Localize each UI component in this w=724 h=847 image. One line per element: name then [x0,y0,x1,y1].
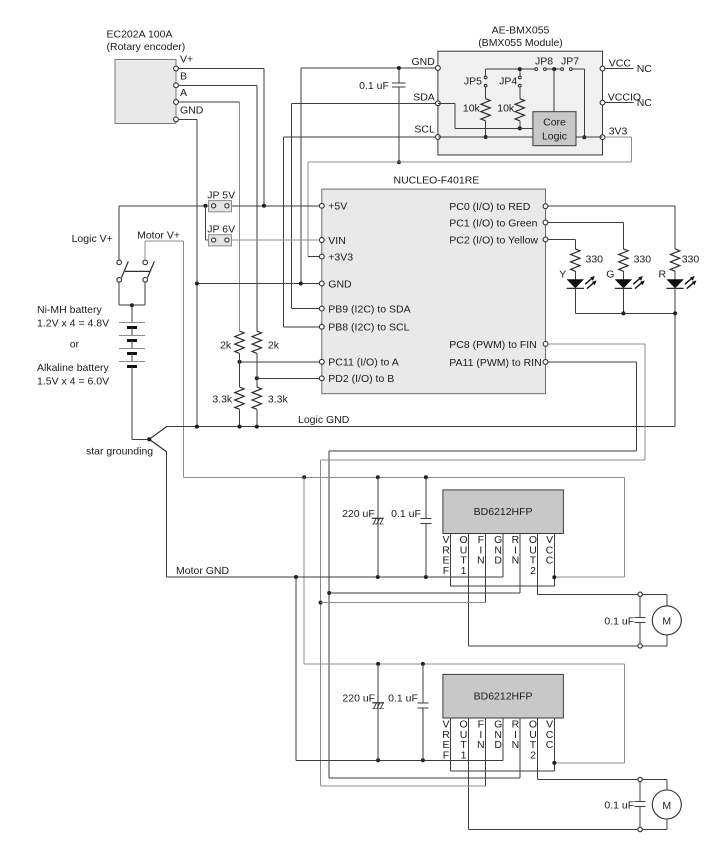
wire NUCLEO GND line [197,283,320,285]
wire +5V line [232,205,320,207]
svg-text:PD2 (I/O) to B: PD2 (I/O) to B [328,373,394,385]
driver U2 pin GND wire [502,718,504,760]
wire encoder A down [178,101,239,103]
svg-text:PC8 (PWM) to FIN: PC8 (PWM) to FIN [449,339,537,351]
svg-text:Motor GND: Motor GND [176,565,230,577]
wire PB9 stub [292,308,320,310]
svg-text:JP 5V: JP 5V [207,189,235,201]
svg-text:3.3k: 3.3k [212,394,233,406]
wire motor V+ rail driver1 [184,476,625,478]
switch gang bar [125,270,150,272]
svg-text:(BMX055 Module): (BMX055 Module) [478,37,563,49]
svg-text:PB9 (I2C) to SDA: PB9 (I2C) to SDA [328,304,410,316]
driver U2 pin OUT1 wire [467,718,469,830]
wire A divider mid [239,353,241,387]
driver U1 pin VREF wire [450,534,452,586]
wire PC1 to green LED [548,222,624,224]
svg-text:2k: 2k [220,340,232,352]
module AE-BMX055 body [438,51,603,155]
svg-text:330: 330 [586,254,604,266]
svg-text:NUCLEO-F401RE: NUCLEO-F401RE [394,174,480,186]
wire logic V+ drop [118,206,120,260]
svg-text:R: R [659,268,667,280]
svg-text:VCC: VCC [609,57,632,69]
wire motor GND bus driver1 [167,576,503,578]
wire PD2 to divider B [257,377,320,379]
NUCLEO pin PC0 [543,204,548,209]
rotary encoder EC202A body [115,60,176,124]
svg-text:JP4: JP4 [499,76,517,88]
capacitor 0.1uF module decoupling [398,68,400,83]
module pin 3V3 [600,135,605,140]
resistor 330 for LED G [619,249,628,271]
wire LED bus to logic GND [674,313,676,426]
wire module SCL to PB8 [283,136,435,138]
svg-text:1: 1 [461,749,467,761]
svg-text:G: G [606,268,614,280]
NUCLEO pin PC2 [543,237,548,242]
svg-text:Core: Core [543,117,566,129]
wire B divider mid [256,353,258,387]
wire module 3V3 wraparound to +3V3 [605,136,632,138]
LED R [674,271,676,279]
svg-text:0.1 uF: 0.1 uF [391,508,421,520]
svg-text:2: 2 [530,749,536,761]
wire PA11 to RIN net [548,361,637,363]
NUCLEO pin PB8 [319,324,324,329]
svg-text:C: C [546,555,554,567]
svg-text:AE-BMX055: AE-BMX055 [492,25,550,37]
driver U1 pin OUT1 wire [467,534,469,646]
module internal 3V3 to core [576,136,603,138]
module pin VCCIO with NC stub [600,100,605,105]
star grounding node [132,438,149,440]
svg-text:PC1 (I/O) to Green: PC1 (I/O) to Green [449,217,537,229]
svg-text:N: N [477,555,485,567]
wire PC8 to FIN net [548,343,645,345]
motor driver IC BD6212HFP U2 [443,674,564,718]
svg-text:star grounding: star grounding [86,446,153,458]
NUCLEO pin GND [319,281,324,286]
svg-text:PC2 (I/O) to Yellow: PC2 (I/O) to Yellow [449,234,538,246]
svg-text:M: M [662,800,671,812]
module internal 3V3 rail [486,68,535,70]
svg-text:Alkaline battery: Alkaline battery [37,362,110,374]
capacitor 220uF U1 [377,477,379,577]
capacitor 0.1uF motor U1 [638,592,642,596]
core logic block [553,69,555,112]
svg-text:BD6212HFP: BD6212HFP [474,691,533,703]
NUCLEO pin +5V [319,203,324,208]
svg-text:330: 330 [634,254,652,266]
svg-text:VIN: VIN [328,235,346,247]
svg-text:A: A [180,87,187,99]
svg-text:JP7: JP7 [561,56,579,68]
svg-text:+3V3: +3V3 [328,252,353,264]
svg-text:JP 6V: JP 6V [207,223,235,235]
wire motor GND branch to driver2 [295,577,297,760]
NUCLEO pin PB9 [319,306,324,311]
svg-text:1.2V x 4 = 4.8V: 1.2V x 4 = 4.8V [37,317,109,329]
wire module SDA to PB9 [292,102,436,104]
NUCLEO pin PC1 [543,220,548,225]
wire PC0 to red LED [548,205,675,207]
wire module GND to NUCLEO GND [399,67,436,69]
wire motor V+ riser [144,241,146,260]
svg-text:Ni-MH battery: Ni-MH battery [37,304,103,316]
svg-text:10k: 10k [463,103,481,115]
NUCLEO pin +3V3 [319,254,324,259]
svg-text:Logic GND: Logic GND [298,414,350,426]
NUCLEO pin PD2 [319,376,324,381]
svg-text:F: F [443,565,449,577]
svg-text:BD6212HFP: BD6212HFP [474,506,533,518]
svg-text:Y: Y [559,268,566,280]
wire encoder B down [178,84,256,86]
battery B1 4-cell [131,305,133,322]
svg-text:+5V: +5V [328,201,347,213]
svg-text:EC202A 100A: EC202A 100A [107,29,173,41]
svg-text:Logic: Logic [542,131,567,143]
svg-text:0.1 uF: 0.1 uF [359,80,389,92]
wire PB8 stub [283,326,319,328]
driver U2 pin OUT2 wire [537,718,539,780]
wire PC11 to divider A [240,361,320,363]
driver U1 pin OUT2 wire [537,534,539,595]
svg-text:1: 1 [461,565,467,577]
wire PC2 to yellow LED [548,239,575,241]
wire encoder V+ to +5V rail [178,68,264,70]
driver U1 pin VCC wire [553,534,555,586]
encoder pin GND [174,117,179,122]
svg-text:0.1 uF: 0.1 uF [388,692,418,704]
wire LED common cathode bus [575,312,675,314]
svg-text:0.1 uF: 0.1 uF [604,615,634,627]
module pin VCC with NC stub [600,66,605,71]
NUCLEO-F401RE body [322,189,546,394]
wire switch commons to battery [118,282,120,305]
svg-text:220 uF: 220 uF [342,508,375,520]
svg-text:M: M [662,616,671,628]
svg-text:Motor V+: Motor V+ [137,229,180,241]
svg-text:B: B [180,70,187,82]
encoder pin V+ [174,66,179,71]
svg-text:D: D [494,739,502,751]
svg-text:SDA: SDA [413,92,435,104]
driver U2 pin VCC wire [553,718,555,771]
driver U2 pin RIN wire [519,718,521,778]
svg-text:220 uF: 220 uF [342,692,375,704]
svg-text:D: D [494,555,502,567]
wire encoder GND down to grounds [178,118,197,120]
wire motor V+ branch to driver2 [303,477,305,664]
svg-text:JP8: JP8 [535,56,553,68]
motor driver IC BD6212HFP U1 [443,490,564,534]
svg-text:10k: 10k [497,103,515,115]
svg-text:NC: NC [637,63,653,75]
capacitor 0.1uF motor U2 [638,777,642,781]
driver U2 pin FIN wire [485,718,487,786]
driver U1 pin GND wire [502,534,504,578]
svg-text:330: 330 [682,254,700,266]
svg-text:JP5: JP5 [464,76,482,88]
svg-text:(Rotary encoder): (Rotary encoder) [107,41,186,53]
wire 3.3k to logic gnd [239,409,241,426]
svg-text:N: N [512,739,520,751]
svg-text:PB8 (I2C) to SCL: PB8 (I2C) to SCL [328,322,409,334]
svg-text:PC0 (I/O) to RED: PC0 (I/O) to RED [449,201,531,213]
motor M U1 [666,594,668,606]
svg-text:NC: NC [637,97,653,109]
wire star to motor GND [166,452,168,577]
svg-text:V+: V+ [180,54,193,66]
svg-text:N: N [512,555,520,567]
svg-text:GND: GND [328,278,352,290]
driver U2 pin VREF wire [450,718,452,771]
wire JP6V branch [204,206,206,240]
switch S2 motor [143,260,148,265]
module internal SDA wire [438,102,455,104]
resistor 330 for LED R [670,249,679,271]
LED G [622,271,624,279]
LED Y [574,271,576,279]
svg-text:F: F [443,749,449,761]
svg-text:PC11 (I/O) to A: PC11 (I/O) to A [328,357,398,369]
svg-text:PA11 (PWM) to RIN: PA11 (PWM) to RIN [449,357,541,369]
driver U1 pin FIN wire [485,534,487,603]
svg-text:GND: GND [180,104,204,116]
wire +3V3 stub [308,256,319,258]
switch S1 logic [117,260,122,265]
svg-text:or: or [70,339,80,351]
wire logic GND bus [167,426,675,428]
NUCLEO pin PC8 [543,342,548,347]
encoder pin B [174,83,179,88]
encoder pin A [174,100,179,105]
capacitor 0.1uF U1 [425,477,427,518]
svg-text:2k: 2k [268,340,280,352]
svg-text:C: C [546,739,554,751]
svg-text:N: N [477,739,485,751]
svg-text:SCL: SCL [414,124,435,136]
svg-text:3.3k: 3.3k [268,394,289,406]
NUCLEO pin PA11 [543,360,548,365]
wire VIN line [232,239,320,241]
NUCLEO pin PC11 [319,359,324,364]
driver U1 pin RIN wire [519,534,521,594]
motor M U2 [666,780,668,791]
svg-text:Logic V+: Logic V+ [72,233,113,245]
svg-text:GND: GND [411,56,435,68]
resistor 330 for LED Y [571,249,580,271]
svg-text:2: 2 [530,565,536,577]
module internal SCL wire [438,136,533,138]
svg-text:1.5V x 4 = 6.0V: 1.5V x 4 = 6.0V [37,375,109,387]
capacitor 0.1uF U2 [422,664,424,703]
svg-text:0.1 uF: 0.1 uF [604,799,634,811]
svg-text:3V3: 3V3 [609,126,628,138]
capacitor 220uF U2 [377,664,379,760]
NUCLEO pin VIN [319,238,324,243]
